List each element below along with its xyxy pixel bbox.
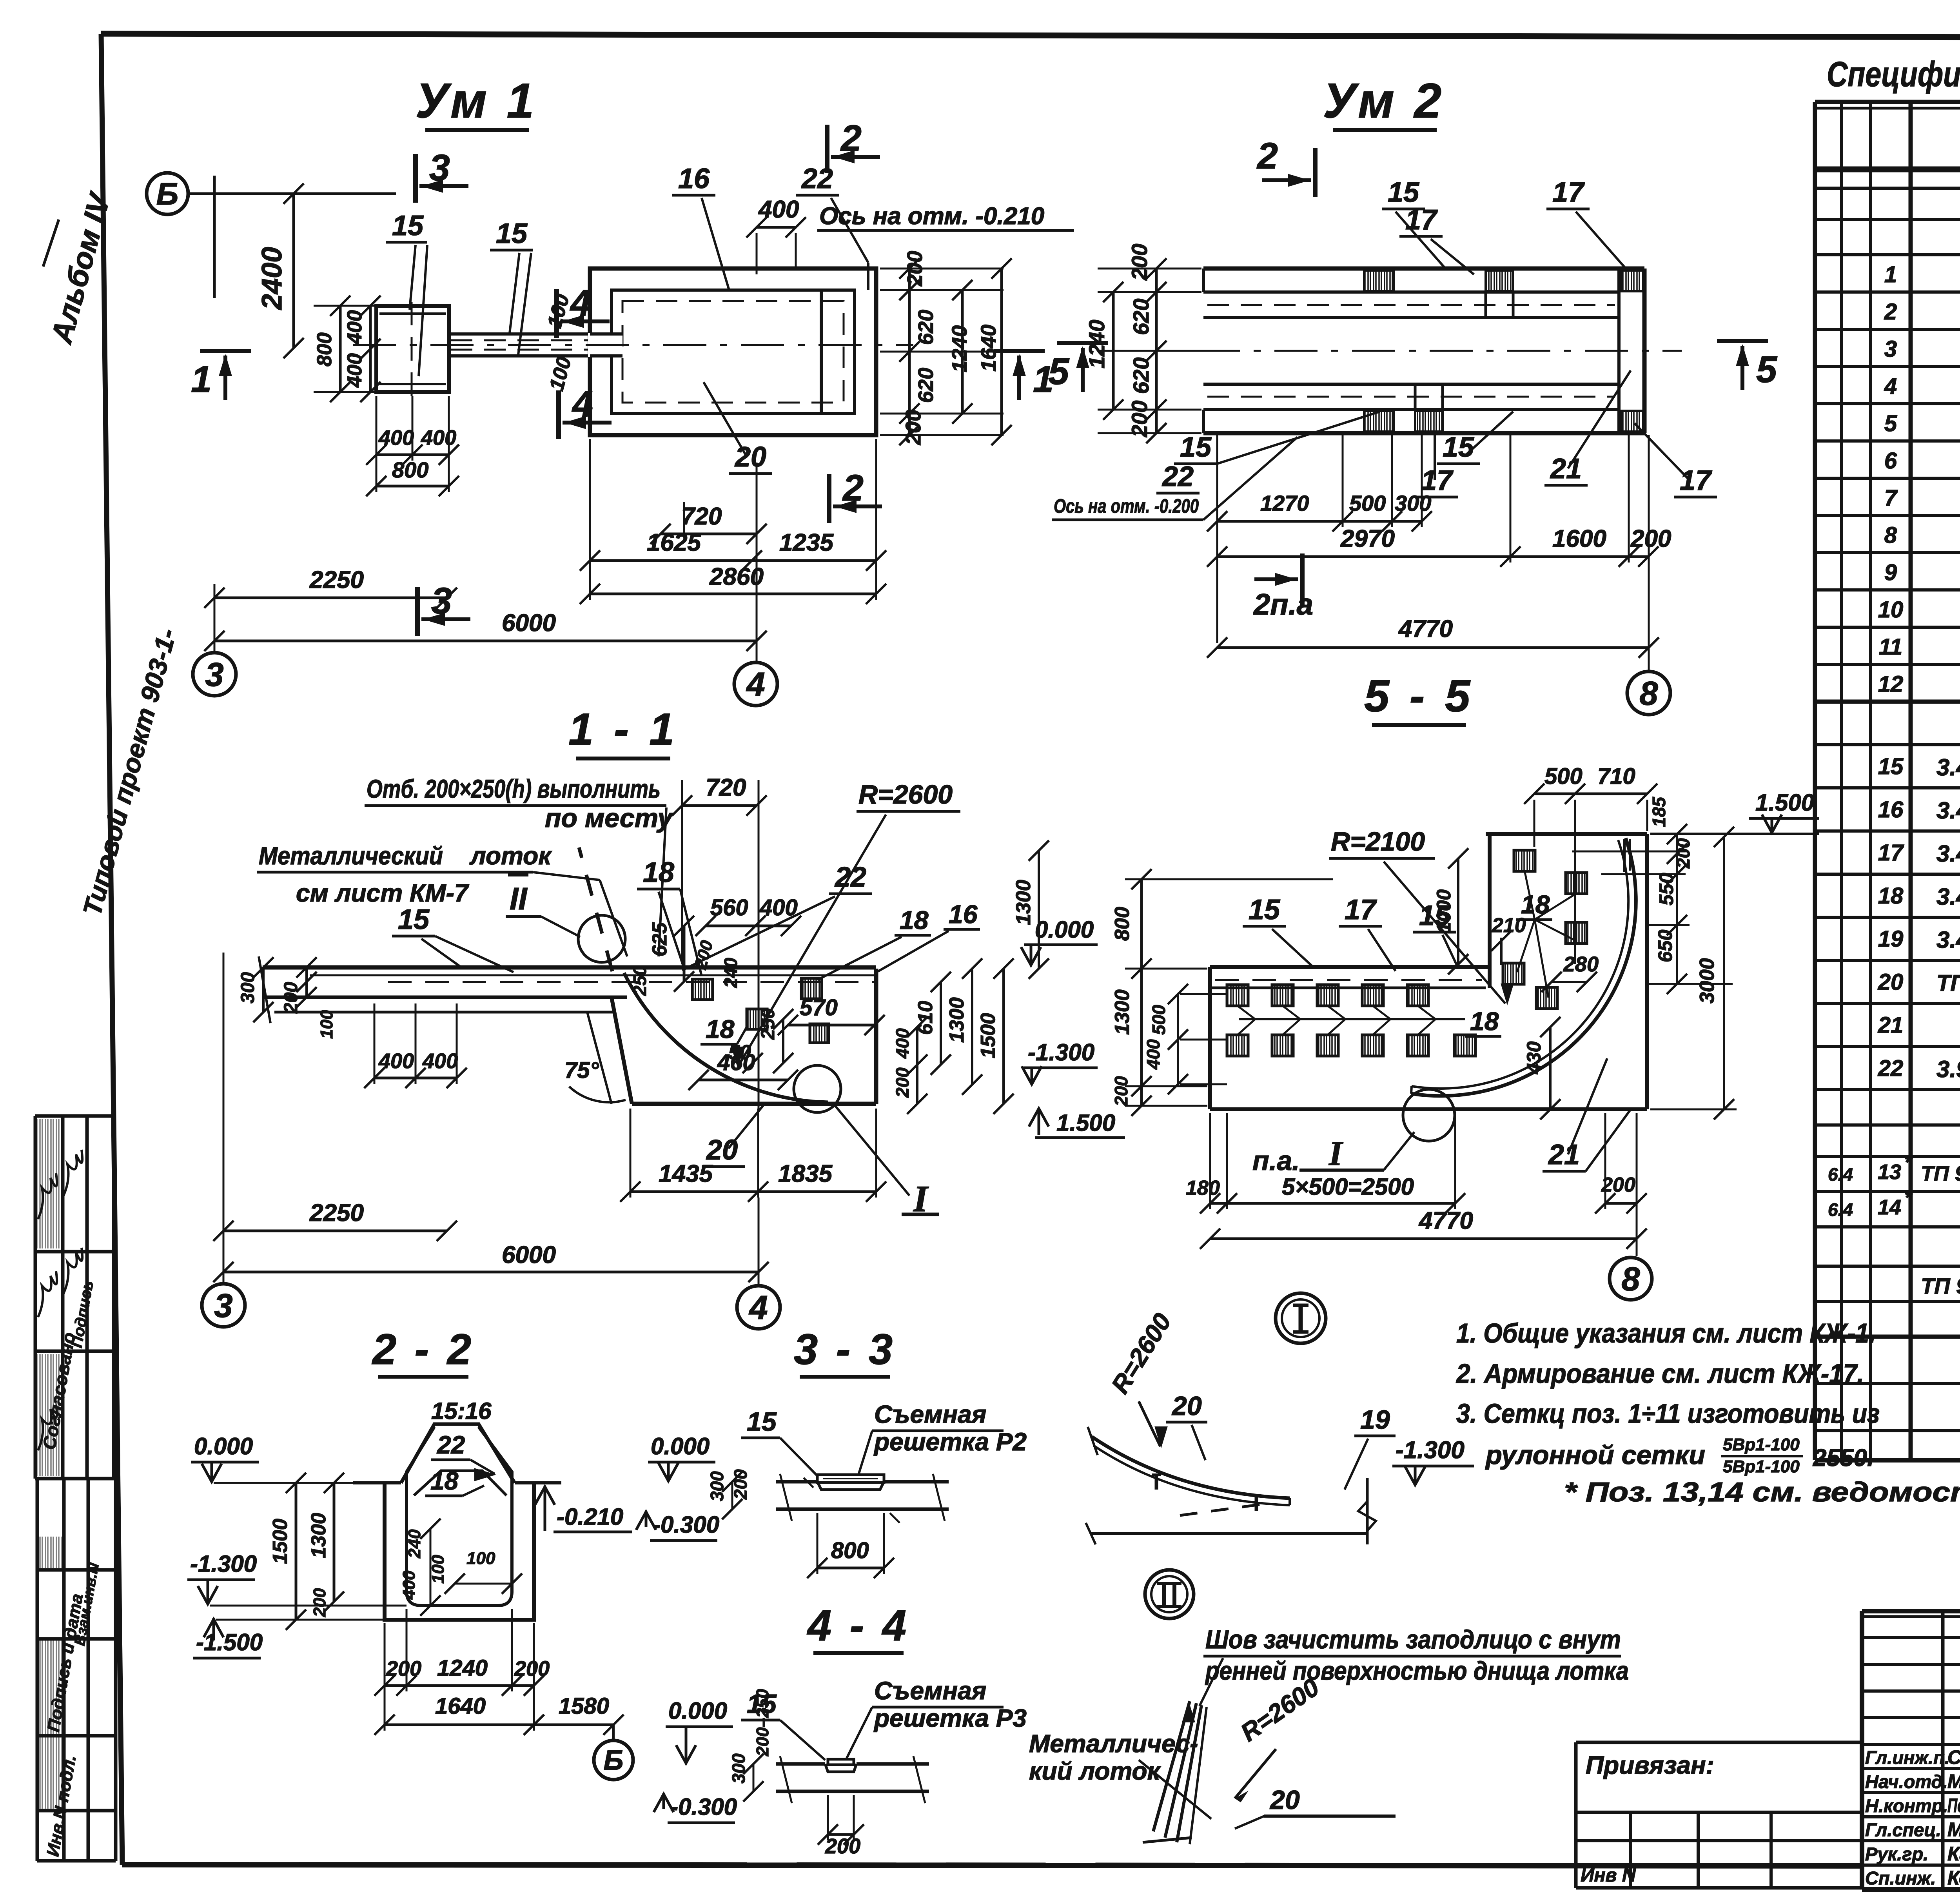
leader lotok — [533, 872, 600, 880]
svg-text:625: 625 — [648, 922, 671, 956]
plan Um1 neck lines — [449, 332, 592, 336]
svg-text:200: 200 — [1630, 525, 1671, 552]
svg-text:6000: 6000 — [502, 1241, 556, 1268]
section 1-1 slab top — [263, 965, 876, 970]
dim 1435 1835 — [630, 1190, 876, 1193]
section 2-2 rim — [401, 1424, 515, 1483]
svg-text:8: 8 — [1884, 523, 1897, 548]
svg-text:19: 19 — [1878, 926, 1904, 952]
plan Um2 right wall — [1642, 269, 1647, 433]
label I leader 1-1 — [834, 1105, 909, 1196]
section mark 5 right — [1717, 339, 1768, 343]
section 3-3 slab — [776, 1480, 817, 1484]
section 1-1 slope 75deg — [612, 997, 632, 1104]
svg-text:100: 100 — [466, 1549, 495, 1568]
svg-text:Рук.гр.: Рук.гр. — [1865, 1844, 1928, 1864]
svg-text:5Вр1-100: 5Вр1-100 — [1723, 1435, 1800, 1454]
hatch square 18 a — [692, 979, 713, 1000]
svg-text:3: 3 — [214, 1287, 232, 1325]
svg-text:22: 22 — [437, 1431, 465, 1459]
section 3-3 break marks — [780, 1474, 792, 1521]
bottom dims 5-5 row1b — [1605, 1202, 1637, 1205]
svg-text:1300: 1300 — [307, 1513, 330, 1558]
level -0.210 — [544, 1486, 546, 1531]
right dims 5-5 c — [1723, 837, 1725, 1109]
detail I circle 5-5 — [1403, 1089, 1455, 1141]
svg-text:800: 800 — [1111, 907, 1134, 941]
sheet border bottom — [122, 1865, 1864, 1866]
dim 1625 1235 — [590, 559, 876, 562]
axis circle 4 plan — [734, 662, 777, 706]
detail II joint lines — [1153, 1701, 1190, 1831]
svg-text:1240: 1240 — [1084, 319, 1109, 368]
svg-text:3: 3 — [429, 147, 450, 189]
dim 2860 — [590, 593, 876, 595]
section 4-4 break marks — [780, 1756, 792, 1803]
svg-text:500: 500 — [1544, 764, 1583, 789]
svg-text:2п.а: 2п.а — [1253, 588, 1313, 621]
svg-text:3 - 3: 3 - 3 — [794, 1325, 896, 1374]
svg-text:6.4: 6.4 — [1828, 1164, 1853, 1185]
spec table row lines — [1815, 167, 1960, 171]
svg-text:5: 5 — [1884, 411, 1897, 436]
svg-text:7: 7 — [1884, 485, 1898, 511]
dim 560 400 — [706, 925, 791, 927]
svg-text:400: 400 — [399, 1570, 419, 1600]
detail I left break — [1088, 1427, 1098, 1455]
svg-text:*: * — [1904, 1151, 1913, 1173]
svg-text:3000: 3000 — [1696, 958, 1719, 1003]
svg-text:16: 16 — [949, 900, 978, 929]
dim 400 400 section 1-1 — [374, 1077, 457, 1080]
section 2-2 ground lines — [353, 1481, 401, 1484]
section mark 2pa bottom Um2 — [1300, 553, 1305, 606]
svg-text:18: 18 — [1878, 883, 1904, 909]
svg-text:200: 200 — [1127, 401, 1152, 437]
svg-text:200–250: 200–250 — [753, 1689, 772, 1756]
svg-text:570: 570 — [800, 995, 838, 1020]
svg-text:800: 800 — [831, 1538, 869, 1563]
dim 2250 section 1-1 — [223, 1230, 447, 1232]
svg-text:2 - 2: 2 - 2 — [372, 1325, 474, 1374]
axis circle 3 plan — [193, 653, 236, 696]
svg-text:17: 17 — [1878, 840, 1904, 866]
svg-text:200: 200 — [730, 1469, 751, 1500]
svg-text:2: 2 — [842, 467, 864, 509]
svg-text:3.901-5: 3.901-5 — [1936, 1056, 1960, 1082]
svg-text:20: 20 — [1269, 1785, 1300, 1815]
svg-text:5Вр1-100: 5Вр1-100 — [1723, 1457, 1800, 1476]
section mark 3 top — [413, 154, 418, 203]
svg-text:17: 17 — [1405, 204, 1438, 236]
svg-text:200: 200 — [514, 1657, 550, 1680]
svg-text:240: 240 — [405, 1529, 424, 1559]
dim 500 710 top 5-5 — [1534, 793, 1647, 795]
svg-text:0.000: 0.000 — [651, 1433, 710, 1459]
svg-text:Гл.спец.: Гл.спец. — [1865, 1820, 1941, 1840]
svg-text:21: 21 — [1548, 1139, 1580, 1170]
svg-text:15: 15 — [1878, 754, 1904, 779]
svg-text:4 - 4: 4 - 4 — [807, 1602, 909, 1650]
Um2 bottom dims row1 — [1217, 520, 1422, 523]
svg-text:21: 21 — [1878, 1013, 1904, 1038]
detail I title circle — [1276, 1293, 1326, 1343]
section mark 2 bottom — [827, 474, 831, 523]
svg-text:6: 6 — [1884, 448, 1897, 474]
svg-text:15: 15 — [496, 218, 528, 249]
svg-text:200: 200 — [386, 1657, 421, 1680]
axis circle 4 section — [737, 1286, 780, 1329]
svg-text:2250: 2250 — [309, 566, 364, 593]
svg-text:13: 13 — [1878, 1160, 1901, 1184]
section 1-1 slab inner — [388, 981, 874, 983]
svg-text:Съемная: Съемная — [874, 1677, 986, 1705]
svg-text:ТП 903-1-: ТП 903-1- — [1921, 1274, 1960, 1298]
svg-text:400: 400 — [343, 310, 366, 345]
svg-text:Привязан:: Привязан: — [1586, 1751, 1714, 1779]
bottom dims 5-5 row1 — [1210, 1202, 1455, 1205]
section 2-2 inner trapezoid 18 — [414, 1471, 506, 1495]
svg-text:5×500=2500: 5×500=2500 — [1282, 1174, 1414, 1200]
svg-text:2: 2 — [1256, 135, 1278, 177]
svg-text:0.000: 0.000 — [194, 1433, 253, 1459]
svg-text:Катаева: Катаева — [1947, 1843, 1960, 1865]
svg-text:1240: 1240 — [437, 1655, 488, 1681]
svg-text:2: 2 — [1884, 299, 1897, 325]
svg-text:2400: 2400 — [256, 247, 288, 310]
svg-text:9: 9 — [1884, 560, 1897, 585]
svg-text:720: 720 — [706, 774, 746, 801]
svg-text:-1.300: -1.300 — [1028, 1039, 1094, 1065]
svg-text:I: I — [1328, 1135, 1343, 1173]
svg-text:400: 400 — [343, 353, 366, 388]
svg-text:400: 400 — [422, 1049, 458, 1073]
svg-text:Ум 2: Ум 2 — [1323, 74, 1445, 128]
svg-text:100: 100 — [317, 1010, 336, 1039]
detail I curve — [1092, 1437, 1290, 1498]
plan Um1 channel inner dashed — [622, 301, 844, 403]
left dims 5-5 — [1140, 879, 1143, 1106]
svg-text:650: 650 — [1654, 929, 1676, 962]
svg-text:1640: 1640 — [977, 325, 1000, 372]
svg-text:Съемная: Съемная — [874, 1400, 986, 1428]
dim 200 4-4 — [828, 1833, 854, 1836]
svg-text:10: 10 — [1878, 597, 1904, 622]
dim 720 — [661, 533, 757, 535]
svg-text:15: 15 — [1443, 432, 1474, 463]
svg-text:Морунов: Морунов — [1947, 1771, 1960, 1793]
svg-text:1240: 1240 — [948, 325, 971, 372]
dim 460 — [699, 1079, 788, 1081]
svg-text:300: 300 — [1395, 491, 1431, 515]
spec table outer grid — [1815, 100, 1960, 104]
svg-text:300: 300 — [728, 1753, 749, 1784]
svg-text:лоток: лоток — [469, 842, 552, 870]
hatch square 18 b — [801, 978, 822, 999]
stamp scribbles — [38, 1173, 57, 1219]
svg-text:500: 500 — [1349, 491, 1386, 515]
svg-text:8: 8 — [1621, 1261, 1640, 1298]
svg-text:180: 180 — [1186, 1177, 1220, 1199]
hatch squares raised 5-5 — [1514, 850, 1535, 871]
svg-text:15:16: 15:16 — [431, 1398, 492, 1424]
section 2-2 outer walls — [385, 1483, 534, 1620]
svg-text:*: * — [1904, 1187, 1913, 1208]
svg-text:Гл.инж.п.: Гл.инж.п. — [1865, 1747, 1950, 1768]
left stamp box upper — [35, 1114, 114, 1118]
stamp cell fills — [36, 1119, 62, 1248]
plan Um2 bottom wall — [1203, 383, 1619, 386]
dim 400 400 below box — [376, 454, 449, 456]
svg-text:800: 800 — [392, 457, 428, 482]
plan Um1 channel inner — [612, 290, 855, 414]
section 4-4 grate — [825, 1764, 857, 1772]
svg-text:17: 17 — [1680, 465, 1712, 496]
plan Um1 right dims — [880, 268, 1004, 270]
svg-text:2: 2 — [840, 118, 862, 159]
plan Um1 left dims — [369, 306, 372, 392]
svg-text:-1.300: -1.300 — [1396, 1437, 1465, 1464]
svg-text:200: 200 — [903, 251, 927, 287]
hatch squares row1 5-5 — [1227, 985, 1248, 1006]
svg-text:Отб. 200×250(h) выполнить: Отб. 200×250(h) выполнить — [367, 774, 661, 803]
svg-text:185: 185 — [1649, 797, 1669, 827]
hatch square 18 c — [747, 1009, 767, 1029]
svg-text:550: 550 — [1655, 873, 1677, 905]
plan Um2 joint hatches top — [1364, 270, 1394, 291]
section mark 1 left — [200, 349, 251, 353]
svg-text:Спецификация монолитных учас: Спецификация монолитных участков Ум1, Ум… — [1827, 55, 1960, 94]
dim 720 top — [682, 804, 757, 807]
svg-text:22: 22 — [1161, 461, 1194, 492]
svg-text:22: 22 — [1878, 1056, 1904, 1081]
dim 1500 2-2 — [295, 1483, 298, 1620]
svg-text:Погорельский: Погорельский — [1947, 1795, 1960, 1816]
svg-text:800: 800 — [313, 332, 336, 367]
plan Um1 channel left wall gap — [588, 333, 622, 357]
svg-text:3: 3 — [431, 580, 452, 622]
svg-text:1500: 1500 — [269, 1519, 292, 1564]
svg-text:1500: 1500 — [977, 1013, 1000, 1058]
dims below 2-2 — [385, 1684, 534, 1687]
svg-text:Ось на отм. -0.200: Ось на отм. -0.200 — [1054, 495, 1199, 517]
svg-text:560: 560 — [710, 895, 748, 920]
svg-text:15: 15 — [1249, 894, 1280, 925]
svg-text:-0.300: -0.300 — [653, 1512, 719, 1538]
svg-text:3.400-6/76: 3.400-6/76 — [1936, 797, 1960, 824]
svg-text:1.500: 1.500 — [1755, 789, 1814, 816]
svg-text:рулонной сетки: рулонной сетки — [1485, 1440, 1705, 1470]
svg-text:4: 4 — [1884, 374, 1897, 399]
title block signature grid — [1862, 1636, 1960, 1639]
dim 625 — [683, 926, 686, 982]
svg-text:1835: 1835 — [778, 1160, 833, 1187]
svg-text:8: 8 — [1639, 675, 1658, 712]
svg-text:ТП 903-1-: ТП 903-1- — [1936, 971, 1960, 996]
svg-text:ТП 903-1-: ТП 903-1- — [1921, 1162, 1960, 1185]
svg-text:16: 16 — [1878, 797, 1904, 822]
svg-text:по месту: по месту — [545, 803, 674, 833]
dim 6000 plan — [214, 640, 757, 642]
plan Um2 centerline — [1119, 350, 1682, 352]
svg-text:6.4: 6.4 — [1828, 1199, 1853, 1220]
svg-text:16: 16 — [678, 163, 710, 194]
svg-text:II: II — [510, 881, 528, 916]
svg-text:Сп.инж.: Сп.инж. — [1865, 1868, 1936, 1889]
dim 6000 section 1-1 — [223, 1271, 759, 1274]
svg-text:19: 19 — [1360, 1405, 1390, 1435]
axis circle 3 section — [202, 1284, 245, 1327]
svg-text:15: 15 — [1388, 177, 1419, 208]
svg-text:18: 18 — [900, 905, 929, 934]
svg-text:Нач.отд.: Нач.отд. — [1865, 1771, 1948, 1792]
detail I end lines — [1366, 1478, 1369, 1544]
detail I circle on 1-1 — [794, 1065, 841, 1112]
svg-text:Шов зачистить заподлицо с внут: Шов зачистить заподлицо с внут — [1205, 1625, 1621, 1654]
svg-text:22: 22 — [801, 163, 833, 194]
svg-text:Б: Б — [156, 176, 179, 211]
svg-text:3. Сеткц поз. 1÷11 изготовит: 3. Сеткц поз. 1÷11 изготовить из — [1456, 1398, 1880, 1429]
svg-text:0.000: 0.000 — [668, 1698, 727, 1724]
svg-text:400: 400 — [421, 426, 456, 450]
svg-text:3.400-6/76: 3.400-6/76 — [1936, 927, 1960, 953]
svg-text:1300: 1300 — [1012, 880, 1035, 925]
svg-text:710: 710 — [1597, 764, 1635, 789]
dim 400 top — [757, 226, 796, 229]
svg-text:2970: 2970 — [1340, 525, 1395, 552]
svg-text:280: 280 — [1563, 953, 1599, 976]
svg-text:6000: 6000 — [502, 610, 556, 637]
svg-text:1.500: 1.500 — [1056, 1110, 1115, 1136]
svg-text:3: 3 — [205, 656, 223, 693]
svg-text:20: 20 — [1171, 1391, 1202, 1421]
svg-text:15: 15 — [392, 210, 424, 241]
svg-text:-0.300: -0.300 — [670, 1794, 737, 1820]
svg-text:1300: 1300 — [1111, 989, 1134, 1035]
svg-text:200: 200 — [310, 1588, 329, 1617]
svg-text:17: 17 — [1552, 177, 1585, 208]
svg-text:Б: Б — [604, 1745, 624, 1776]
svg-text:ренней поверхностью днища лот: ренней поверхностью днища лотка — [1205, 1656, 1629, 1685]
Um2 bottom dims row2 — [1217, 555, 1648, 558]
svg-text:620: 620 — [1129, 357, 1153, 394]
detail II circle on 1-1 — [578, 915, 625, 962]
axis circle B 2-2 — [594, 1740, 633, 1780]
section 1-1 right edge — [874, 969, 878, 1104]
svg-text:200: 200 — [1111, 1076, 1131, 1107]
section 1-1 trough curve R2600 — [624, 973, 828, 1102]
section mark 5 left — [1057, 341, 1108, 345]
svg-text:18: 18 — [706, 1014, 735, 1043]
section mark 2 top — [825, 125, 829, 173]
svg-text:21: 21 — [1550, 453, 1582, 484]
dim 1300 right — [971, 969, 973, 1085]
dim 1000 rot — [1457, 858, 1459, 964]
dim 1300 upper right — [1038, 851, 1040, 969]
svg-text:14: 14 — [1878, 1196, 1901, 1219]
section 2-2 inner cavity — [407, 1427, 512, 1606]
plan Um1 small box outline — [376, 306, 449, 392]
svg-text:5: 5 — [1756, 349, 1777, 390]
svg-text:500: 500 — [1149, 1005, 1169, 1035]
privyazan box — [1576, 1741, 1862, 1744]
svg-text:2. Армирование см. лист КЖ-: 2. Армирование см. лист КЖ-17. — [1455, 1358, 1864, 1389]
dim 1300 2-2 — [333, 1483, 336, 1602]
left stamp box lower — [37, 1568, 116, 1572]
axis circle 8 5-5 — [1610, 1257, 1652, 1300]
svg-text:15: 15 — [398, 904, 430, 935]
svg-text:1640: 1640 — [435, 1693, 486, 1719]
svg-text:240: 240 — [720, 958, 741, 988]
svg-text:1: 1 — [1884, 262, 1897, 287]
svg-text:-0.210: -0.210 — [557, 1504, 623, 1530]
Um2 left dims — [1098, 268, 1201, 270]
svg-text:5: 5 — [1048, 351, 1069, 392]
plan Um2 partitions — [1485, 292, 1487, 318]
detail I bottom line — [1090, 1532, 1367, 1535]
svg-text:400: 400 — [758, 196, 799, 223]
svg-text:2250: 2250 — [309, 1199, 364, 1227]
svg-text:Ось на отм. -0.210: Ось на отм. -0.210 — [819, 203, 1044, 230]
hatch squares row2 5-5 — [1227, 1035, 1248, 1056]
axis circle B — [147, 173, 188, 214]
svg-text:см лист КМ-7: см лист КМ-7 — [296, 879, 470, 907]
plan Um2 joint hatches bottom — [1364, 411, 1394, 432]
svg-text:400: 400 — [892, 1028, 913, 1059]
svg-text:200: 200 — [825, 1834, 860, 1858]
dim 800 3-3 — [817, 1567, 884, 1570]
svg-text:1580: 1580 — [559, 1693, 609, 1719]
sheet border left — [101, 34, 122, 1865]
svg-text:Колесова: Колесова — [1947, 1867, 1960, 1889]
svg-text:17: 17 — [1345, 894, 1377, 925]
svg-text:1435: 1435 — [659, 1160, 713, 1187]
svg-text:620: 620 — [1129, 299, 1153, 335]
section 1-1 dashed axis to detail II — [579, 847, 612, 971]
hatch square 18 d — [810, 1024, 829, 1043]
svg-text:75°: 75° — [564, 1058, 599, 1083]
sheet border top — [101, 34, 1960, 38]
right dims 5-5 a — [1676, 834, 1678, 984]
svg-text:Металлический: Металлический — [259, 842, 443, 870]
section mark 1 right — [994, 349, 1045, 353]
svg-text:4770: 4770 — [1398, 615, 1453, 642]
svg-text:4: 4 — [748, 1289, 768, 1326]
svg-text:1270: 1270 — [1260, 491, 1309, 515]
svg-text:Марков: Марков — [1947, 1819, 1960, 1841]
section 1-1 slab bottom — [263, 996, 627, 999]
svg-text:1235: 1235 — [779, 529, 834, 556]
svg-text:3.400-6/76: 3.400-6/76 — [1936, 840, 1960, 867]
svg-text:1: 1 — [191, 359, 212, 400]
axis circle 8 Um2 — [1627, 671, 1670, 715]
svg-text:3: 3 — [1884, 336, 1897, 362]
svg-text:1600: 1600 — [1552, 525, 1606, 552]
section 4-4 slab — [776, 1762, 825, 1766]
dim 1500 right — [1002, 969, 1005, 1104]
section 1-1 lower line — [274, 1011, 613, 1014]
section 3-3 grate recess — [817, 1482, 884, 1490]
svg-text:1625: 1625 — [647, 529, 701, 556]
svg-text:620: 620 — [914, 368, 938, 403]
axis 3 extension line top — [213, 176, 216, 298]
svg-text:1000: 1000 — [1433, 889, 1455, 933]
svg-text:3.400-6/76: 3.400-6/76 — [1936, 884, 1960, 910]
svg-text:0.000: 0.000 — [1035, 916, 1094, 943]
svg-text:400: 400 — [759, 895, 798, 920]
svg-text:20: 20 — [734, 441, 766, 473]
leader otb — [659, 807, 666, 956]
